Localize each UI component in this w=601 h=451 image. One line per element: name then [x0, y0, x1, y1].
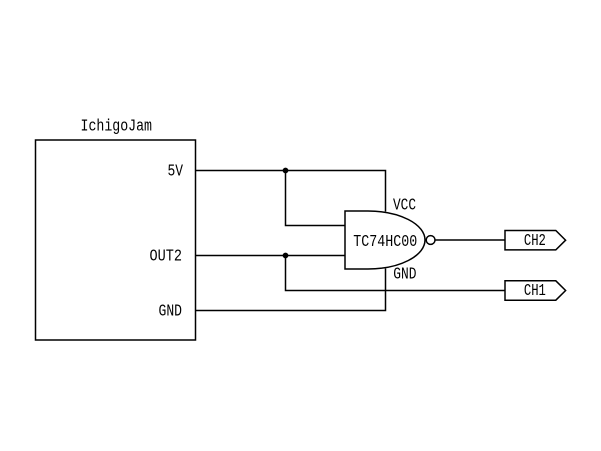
junction dot on 5V line: [283, 168, 289, 174]
connector CH1: [505, 281, 566, 300]
connector CH2: [505, 231, 566, 250]
IchigoJam module body: [36, 140, 196, 340]
junction dot on OUT2 line: [283, 253, 289, 259]
wire 5V from IchigoJam to U1 VCC: [196, 171, 386, 212]
svg-text:IchigoJam: IchigoJam: [81, 118, 153, 137]
wire OUT2 to U1 input B: [196, 255, 346, 257]
U1 inversion bubble: [426, 236, 435, 245]
wire GND from IchigoJam to U1 GND: [196, 269, 386, 311]
svg-text:OUT2: OUT2: [150, 248, 183, 267]
wire branch 5V to U1 input A: [286, 171, 346, 226]
NAND gate U1 body: [345, 211, 425, 269]
svg-text:GND: GND: [159, 303, 183, 322]
svg-text:GND: GND: [393, 266, 416, 285]
wire U1 output to CH2: [435, 239, 505, 241]
wire branch OUT2 to CH1: [286, 256, 506, 291]
svg-text:TC74HC00: TC74HC00: [353, 233, 417, 252]
svg-text:CH1: CH1: [524, 282, 546, 301]
svg-text:5V: 5V: [168, 163, 184, 182]
svg-text:CH2: CH2: [524, 232, 546, 251]
svg-text:VCC: VCC: [393, 197, 416, 216]
